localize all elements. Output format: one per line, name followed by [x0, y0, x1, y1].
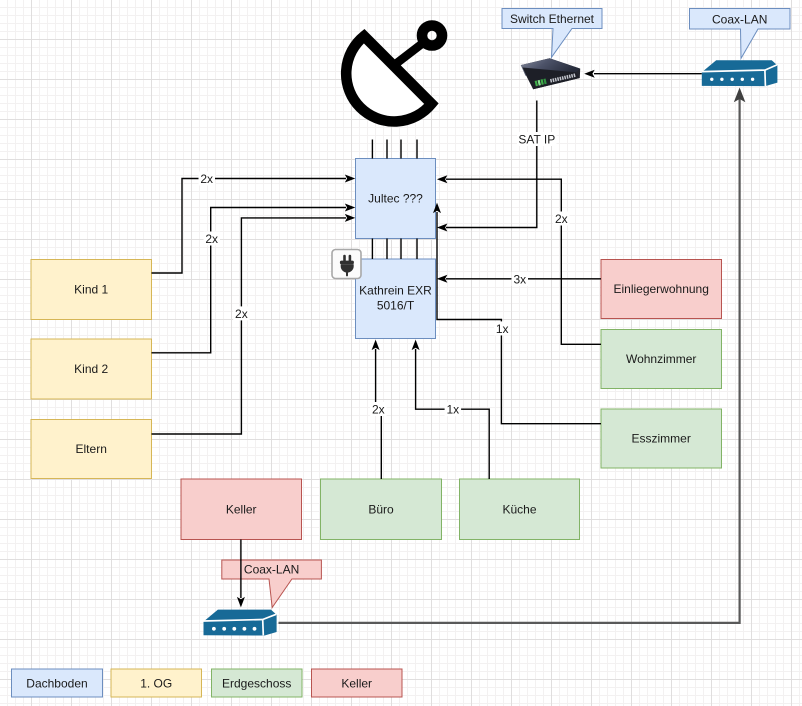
wire: Wohnzimmer to Jultec (2x)	[437, 175, 601, 344]
svg-text:Wohnzimmer: Wohnzimmer	[626, 352, 696, 366]
svg-text:Keller: Keller	[226, 503, 257, 517]
wire: Coax-LAN bottom switch to Coax-LAN top device (long gray link)	[279, 88, 746, 623]
svg-text:Coax-LAN: Coax-LAN	[244, 563, 299, 577]
svg-text:Jultec ???: Jultec ???	[368, 192, 423, 206]
svg-text:1x: 1x	[446, 403, 459, 417]
svg-text:Dachboden: Dachboden	[26, 677, 87, 691]
svg-text:2x: 2x	[372, 403, 385, 417]
legend Dachboden	[12, 669, 103, 697]
legend Keller	[312, 669, 403, 697]
power plug icon on Kathrein	[332, 250, 361, 279]
svg-text:3x: 3x	[513, 273, 526, 287]
wire: Switch Ethernet to Jultec (SAT IP)	[437, 101, 557, 232]
node Buero	[321, 479, 442, 540]
svg-text:2x: 2x	[235, 307, 248, 321]
Coax-LAN switch (bottom)	[204, 610, 277, 636]
wire: Jultec-Kathrein link 2	[386, 239, 388, 260]
wire: Esszimmer to Jultec (1x)	[433, 203, 601, 424]
svg-text:SAT IP: SAT IP	[518, 133, 555, 147]
node Eltern	[31, 420, 152, 479]
node Jultec ??? (multiswitch box)	[356, 159, 436, 239]
wire: Kind 2 to Jultec (2x)	[152, 204, 356, 353]
svg-text:1. OG: 1. OG	[140, 677, 172, 691]
wire: Buero to Kathrein (2x)	[370, 340, 387, 479]
svg-text:Küche: Küche	[502, 503, 536, 517]
wire: dish cable 3	[400, 140, 402, 159]
node Kind 1	[31, 260, 152, 320]
svg-text:Switch Ethernet: Switch Ethernet	[510, 12, 595, 26]
svg-text:2x: 2x	[555, 212, 568, 226]
svg-text:Kind 2: Kind 2	[74, 362, 108, 376]
svg-text:Eltern: Eltern	[76, 442, 107, 456]
svg-text:Kathrein EXR: Kathrein EXR	[359, 284, 432, 298]
node Keller	[181, 479, 302, 540]
legend Erdgeschoss	[212, 669, 303, 697]
wire: Jultec-Kathrein link 1	[371, 239, 373, 260]
satellite dish icon	[346, 26, 442, 122]
wire: dish cable 1	[371, 140, 373, 159]
svg-text:Kind 1: Kind 1	[74, 283, 108, 297]
wire: Keller to Coax-LAN switch	[237, 540, 245, 608]
node Kathrein EXR 5016/T (multiswitch box)	[356, 259, 436, 339]
Coax-LAN device (top right)	[702, 60, 778, 86]
node Wohnzimmer	[601, 330, 722, 389]
svg-text:2x: 2x	[205, 232, 218, 246]
wire: Jultec-Kathrein link 4	[416, 239, 418, 260]
node Kind 2	[31, 339, 152, 399]
svg-text:1x: 1x	[496, 322, 509, 336]
wire: Kueche to Kathrein (1x)	[412, 340, 490, 479]
ethernet switch device U1	[521, 58, 580, 89]
wire: dish cable 2	[386, 140, 388, 159]
legend 1. OG	[111, 669, 202, 697]
svg-text:Coax-LAN: Coax-LAN	[712, 13, 767, 27]
wire: Jultec-Kathrein link 3	[400, 239, 402, 260]
node Kueche	[460, 479, 580, 540]
wire: dish cable 4	[416, 140, 418, 159]
svg-text:Einliegerwohnung: Einliegerwohnung	[613, 282, 708, 296]
svg-text:Erdgeschoss: Erdgeschoss	[222, 677, 291, 691]
svg-text:Esszimmer: Esszimmer	[632, 432, 691, 446]
svg-text:Keller: Keller	[341, 677, 372, 691]
callout Coax-LAN (bottom, pink)	[222, 560, 322, 608]
node Einliegerwohnung	[601, 260, 722, 319]
svg-text:2x: 2x	[200, 172, 213, 186]
wire: Eltern to Jultec (2x)	[152, 214, 356, 434]
wire: Coax-LAN device to Switch Ethernet	[584, 70, 702, 78]
svg-text:5016/T: 5016/T	[377, 299, 415, 313]
node Esszimmer	[601, 409, 722, 468]
wire: Einliegerwohnung to Kathrein (3x)	[437, 272, 601, 287]
svg-text:Büro: Büro	[368, 503, 394, 517]
callout Coax-LAN (top right)	[690, 9, 791, 59]
callout Switch Ethernet	[502, 9, 602, 58]
wire: Kind 1 to Jultec (2x)	[152, 172, 356, 274]
